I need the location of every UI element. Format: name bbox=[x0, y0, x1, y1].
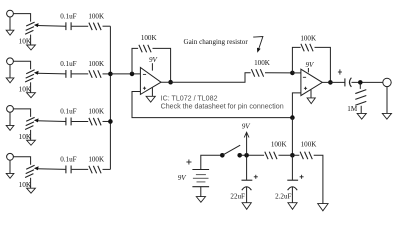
output jack bbox=[383, 78, 391, 86]
ground at pot VR1 bbox=[27, 45, 36, 50]
switch SW1 pole bbox=[220, 153, 225, 158]
wire R4 to summing bus bbox=[103, 168, 111, 170]
wire gain resistor to U2 inverting input bbox=[265, 72, 292, 74]
wire feedback right (U1) bbox=[153, 48, 171, 82]
switch SW1 throw bbox=[237, 153, 242, 158]
resistor 100K divider lower bbox=[300, 152, 303, 160]
svg-text:0.1uF: 0.1uF bbox=[60, 12, 76, 20]
capacitor 0.1uF C4 bbox=[65, 166, 67, 174]
pot VR2 10K body bbox=[26, 70, 34, 74]
wire C4 to R4 bbox=[72, 168, 89, 170]
wire pot VR2 to ground bbox=[30, 82, 32, 92]
node 9V supply bbox=[244, 153, 249, 158]
label + (C5 polarity) bbox=[338, 71, 342, 73]
ground at J2 bbox=[9, 65, 11, 78]
ground at 2.2uF bbox=[288, 203, 297, 210]
node U2 inverting input bbox=[290, 71, 295, 76]
input jack J2 bbox=[7, 58, 14, 65]
pot VR1 10K body bbox=[26, 22, 34, 26]
resistor 100K gain changing bbox=[251, 69, 254, 77]
svg-text:0.1uF: 0.1uF bbox=[60, 60, 76, 68]
svg-text:10K: 10K bbox=[19, 84, 32, 93]
svg-text:100K: 100K bbox=[300, 34, 317, 42]
junction bus/ch3 bbox=[108, 119, 113, 124]
label + (battery) bbox=[186, 161, 191, 163]
svg-text:100K: 100K bbox=[301, 141, 318, 149]
op-amp U2 (TL072 B) bbox=[301, 69, 322, 95]
svg-text:10K: 10K bbox=[19, 37, 32, 46]
switch SW1 lever bbox=[222, 145, 240, 155]
junction bus/ch2 bbox=[108, 72, 113, 77]
wire pot VR1 to ground bbox=[30, 35, 32, 45]
svg-text:Gain changing resistor: Gain changing resistor bbox=[184, 38, 249, 46]
wire R1 to summing bus bbox=[103, 25, 111, 27]
pot VR1 wiper arrow bbox=[37, 25, 66, 28]
wire bias rail to divider bbox=[291, 118, 293, 156]
svg-text:100K: 100K bbox=[271, 141, 288, 149]
svg-text:1M: 1M bbox=[347, 105, 358, 113]
wire U2 non-inverting input bbox=[292, 93, 301, 118]
ground at U2 bbox=[307, 98, 315, 104]
wire pot VR4 to ground bbox=[30, 178, 32, 188]
resistor 100K feedback U1 bbox=[139, 45, 142, 53]
resistor 100K divider upper bbox=[265, 152, 268, 160]
resistor R2 100K bbox=[89, 70, 92, 78]
ground at pot VR3 bbox=[27, 140, 36, 145]
op-amp U1 (TL072 A) bbox=[140, 68, 161, 95]
node U2 output bbox=[328, 80, 333, 85]
capacitor 0.1uF C2 bbox=[65, 70, 67, 78]
node U1 output bbox=[168, 80, 173, 85]
wire R3 to summing bus bbox=[103, 120, 111, 122]
wire feedback left (U2) bbox=[292, 47, 300, 73]
wire J4 to pot top bbox=[13, 157, 30, 165]
wire bus to U1 inverting input bbox=[110, 73, 140, 75]
svg-text:0.1uF: 0.1uF bbox=[60, 156, 76, 164]
wire divider to ground bbox=[314, 155, 323, 203]
label + (2.2uF) bbox=[300, 176, 304, 178]
input jack J4 bbox=[7, 153, 14, 160]
wire feedback right (U2) bbox=[315, 47, 331, 82]
resistor 100K feedback U2 bbox=[301, 44, 304, 52]
wire R2 to summing bus bbox=[103, 73, 111, 75]
label + (22uF) bbox=[254, 176, 258, 178]
U2 minus marker bbox=[303, 76, 306, 78]
resistor R3 100K bbox=[89, 118, 92, 126]
ground at 1M bbox=[357, 113, 366, 119]
pot VR2 wiper arrow bbox=[37, 72, 66, 75]
U2 ground pin wire bbox=[310, 90, 312, 98]
wire J1 to pot top bbox=[13, 14, 30, 22]
wire pot VR3 to ground bbox=[30, 130, 32, 140]
ground at J4 bbox=[9, 160, 11, 173]
svg-text:100K: 100K bbox=[254, 59, 271, 67]
svg-text:100K: 100K bbox=[88, 12, 105, 20]
wire U1 non-inverting input to bias rail bbox=[132, 92, 292, 118]
svg-text:22uF: 22uF bbox=[230, 192, 245, 200]
pot VR3 wiper arrow bbox=[37, 120, 66, 123]
U2 power pin stub bbox=[307, 68, 309, 72]
wire C1 to R1 bbox=[72, 25, 89, 27]
net arrow 9V bbox=[246, 133, 248, 156]
capacitor 2.2uF bias bbox=[291, 155, 293, 180]
svg-text:Check the datasheet for pin co: Check the datasheet for pin connection bbox=[161, 102, 284, 110]
svg-text:2.2uF: 2.2uF bbox=[275, 192, 291, 200]
svg-text:100K: 100K bbox=[88, 60, 105, 68]
wire switch to supply node bbox=[240, 154, 264, 156]
pot VR3 10K body bbox=[26, 117, 34, 121]
input jack J3 bbox=[7, 105, 14, 112]
node bias divider bbox=[290, 153, 295, 158]
ground at pot VR2 bbox=[27, 93, 36, 98]
U2 plus marker bbox=[304, 87, 307, 89]
svg-text:10K: 10K bbox=[19, 132, 32, 141]
resistor R1 100K bbox=[89, 23, 92, 31]
node bias rail bbox=[290, 115, 295, 120]
ground at 22uF bbox=[242, 203, 251, 210]
input jack J1 bbox=[7, 10, 14, 17]
resistor 1M bbox=[359, 82, 361, 89]
capacitor 22uF supply bbox=[246, 155, 248, 180]
ground at divider bbox=[318, 204, 328, 211]
wire 2.2uF to ground bbox=[291, 187, 293, 203]
wire C5 to output jack bbox=[352, 81, 383, 83]
wire J3 to pot top bbox=[13, 109, 30, 117]
node output bbox=[358, 80, 363, 85]
ground at J1 bbox=[9, 17, 11, 30]
wire to U2 inverting input bbox=[292, 72, 301, 74]
svg-text:0.1uF: 0.1uF bbox=[60, 108, 76, 116]
wire feedback left (U1) bbox=[132, 48, 138, 74]
ground at pot VR4 bbox=[27, 188, 36, 193]
svg-text:100K: 100K bbox=[88, 108, 105, 116]
U1 power pin stub bbox=[151, 63, 153, 70]
wire J2 to pot top bbox=[13, 61, 30, 69]
ground at U1 bbox=[146, 96, 155, 102]
capacitor C5 output coupling bbox=[344, 78, 346, 86]
annotation arrow bbox=[253, 37, 263, 50]
wire C2 to R2 bbox=[72, 73, 89, 75]
capacitor 0.1uF C1 bbox=[65, 22, 67, 30]
wire C3 to R3 bbox=[72, 120, 89, 122]
node U1 inverting input bbox=[130, 72, 135, 77]
ground at battery bbox=[200, 187, 202, 197]
U1 plus marker bbox=[143, 87, 146, 89]
svg-text:10K: 10K bbox=[19, 180, 32, 189]
battery BT1 9V bbox=[192, 169, 209, 171]
summing bus wire bbox=[109, 26, 111, 169]
wire 22uF to ground bbox=[246, 187, 248, 203]
svg-text:100K: 100K bbox=[88, 156, 105, 164]
ground at J3 bbox=[9, 112, 11, 125]
wire divider node bbox=[279, 154, 300, 156]
resistor R4 100K bbox=[89, 166, 92, 174]
svg-text:100K: 100K bbox=[141, 34, 158, 42]
capacitor 0.1uF C3 bbox=[65, 118, 67, 126]
wire U2 output to C5 bbox=[322, 81, 345, 83]
wire battery to switch bbox=[201, 155, 223, 169]
wire U1 output to gain resistor bbox=[161, 73, 251, 82]
ground at output jack bbox=[386, 87, 388, 114]
pot VR4 wiper arrow bbox=[37, 168, 66, 171]
U1 minus marker bbox=[143, 73, 146, 75]
pot VR4 10K body bbox=[26, 165, 34, 169]
U1 ground pin wire bbox=[151, 88, 153, 97]
